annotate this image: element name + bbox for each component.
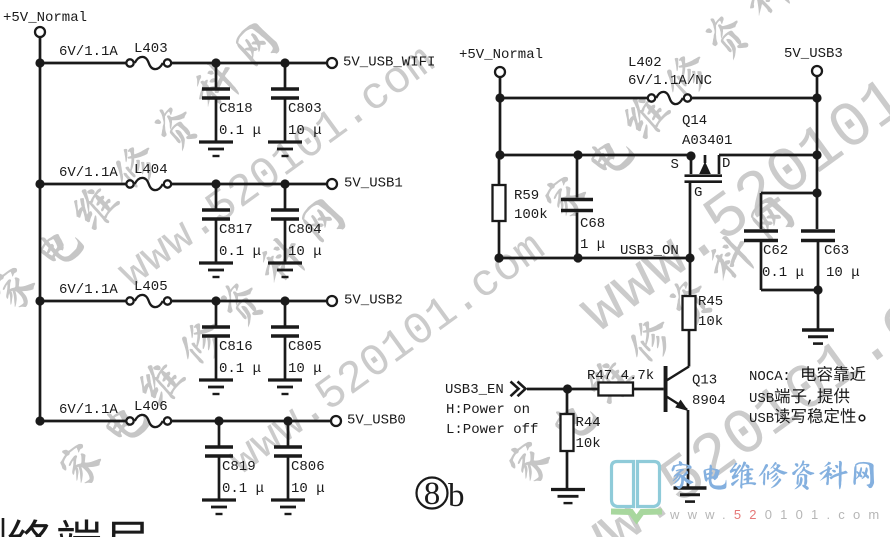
capacitor C63 10u <box>801 231 860 290</box>
resistor R45 10k <box>683 258 724 367</box>
svg-text:5V_USB0: 5V_USB0 <box>347 413 406 429</box>
wire source rail row <box>495 150 691 159</box>
svg-text:6V/1.1A: 6V/1.1A <box>59 44 118 60</box>
svg-text:100k: 100k <box>514 207 548 223</box>
input chevron USB3_EN <box>511 382 526 397</box>
svg-text:6V/1.1A: 6V/1.1A <box>59 282 118 298</box>
transistor Q13 8904 NPN <box>664 366 726 412</box>
svg-text:L:Power off: L:Power off <box>446 422 538 438</box>
wire gate of Q14 down <box>689 183 692 258</box>
wire top rail to L402 <box>495 93 649 102</box>
junction rail row 403 <box>35 58 44 67</box>
wire USB3_EN to R47 <box>527 384 598 393</box>
inductor L405 <box>126 279 171 307</box>
svg-text:C818: C818 <box>219 101 253 117</box>
svg-text:C62: C62 <box>763 243 788 259</box>
svg-text:10 μ: 10 μ <box>288 123 322 139</box>
svg-text:D: D <box>722 156 730 172</box>
svg-text:5V_USB2: 5V_USB2 <box>344 293 403 309</box>
node 5V_USB1 terminal <box>327 179 337 189</box>
svg-text:,: , <box>806 390 815 407</box>
svg-text:C68: C68 <box>580 216 605 232</box>
net 5V_USB_WIFI label <box>343 55 435 71</box>
resistor R47 4.7k <box>587 368 654 396</box>
svg-text:H:Power on: H:Power on <box>446 402 530 418</box>
note H:Power on <box>446 402 530 418</box>
node 5V_USB0 terminal <box>331 416 341 426</box>
junction rail row 405 <box>35 296 44 305</box>
svg-text:5V_USB3: 5V_USB3 <box>784 46 843 62</box>
node 5V_USB3 terminal <box>812 66 822 98</box>
wire fuse to output 5V_USB0 <box>172 420 331 423</box>
svg-text:10 μ: 10 μ <box>291 481 325 497</box>
net +5V_Normal label right <box>459 47 543 63</box>
svg-text:USB: USB <box>749 411 774 427</box>
ground C806 <box>271 500 305 514</box>
resistor R44 10k <box>561 389 601 489</box>
ground Q13 emitter <box>674 488 707 502</box>
svg-text:L406: L406 <box>134 399 168 415</box>
svg-text:10k: 10k <box>698 314 723 330</box>
capacitor C806 10u <box>274 421 325 500</box>
figure label 8b <box>417 476 465 514</box>
note NOCA <box>749 366 865 427</box>
svg-text:6V/1.1A: 6V/1.1A <box>59 402 118 418</box>
capacitor C817 0.1u <box>202 184 261 263</box>
svg-text:L402: L402 <box>628 55 662 71</box>
svg-text:L403: L403 <box>134 41 168 57</box>
wire USB3_ON node row <box>494 253 694 262</box>
caption bottom left <box>3 518 147 537</box>
svg-text:6V/1.1A/NC: 6V/1.1A/NC <box>628 73 712 89</box>
fuse value 6V/1.1A for L403 <box>59 44 118 60</box>
svg-text:A03401: A03401 <box>682 133 732 149</box>
inductor L406 <box>126 399 171 427</box>
capacitor C68 1u <box>561 155 605 258</box>
node junction C816 <box>211 296 220 305</box>
ground C816 <box>199 380 233 394</box>
wire rail to fuse L406 <box>40 420 127 423</box>
svg-text:www.520101.com: www.520101.com <box>669 507 887 522</box>
capacitor C805 10u <box>271 301 322 380</box>
capacitor C816 0.1u <box>202 301 261 380</box>
svg-text:C804: C804 <box>288 222 322 238</box>
node junction C806 <box>283 416 292 425</box>
wire +5V_Normal rail <box>39 38 42 422</box>
net USB3_EN label <box>445 382 504 398</box>
svg-text:G: G <box>694 185 702 201</box>
wire R47 to base <box>633 388 664 391</box>
capacitor C819 0.1u <box>205 421 264 500</box>
svg-text:L405: L405 <box>134 279 168 295</box>
svg-text:10k: 10k <box>576 436 601 452</box>
svg-text:5V_USB1: 5V_USB1 <box>344 176 403 192</box>
capacitor C818 0.1u <box>202 63 261 142</box>
svg-text:S: S <box>671 157 679 173</box>
node junction C819 <box>214 416 223 425</box>
svg-text:b: b <box>448 478 465 514</box>
wire +5V_Normal down <box>499 78 502 156</box>
net 5V_USB2 label <box>344 293 403 309</box>
svg-text:C816: C816 <box>219 339 253 355</box>
wire fuse to output 5V_USB2 <box>172 300 327 303</box>
node 5V_USB_WIFI terminal <box>327 58 337 68</box>
svg-text:10 μ: 10 μ <box>288 244 322 260</box>
net USB3_ON label <box>620 243 679 259</box>
svg-text:0.1 μ: 0.1 μ <box>219 123 261 139</box>
inductor L403 <box>126 41 171 69</box>
wire rail to fuse L405 <box>40 300 127 303</box>
inductor L404 <box>126 162 171 190</box>
wire C62 C63 common <box>761 285 823 329</box>
capacitor C804 10u <box>271 184 322 263</box>
node +5V_Normal terminal <box>35 27 45 37</box>
svg-text:0.1 μ: 0.1 μ <box>762 265 804 281</box>
net 5V_USB1 label <box>344 176 403 192</box>
svg-text:1 μ: 1 μ <box>580 237 605 253</box>
ground R44 <box>551 490 585 504</box>
svg-text:NOCA: NOCA <box>749 369 783 385</box>
node +5V_Normal terminal right <box>495 67 505 77</box>
ground C803 <box>268 142 302 156</box>
svg-text:0.1 μ: 0.1 μ <box>219 244 261 260</box>
svg-text:C819: C819 <box>222 459 256 475</box>
svg-text:+5V_Normal: +5V_Normal <box>459 47 543 63</box>
svg-text:5V_USB_WIFI: 5V_USB_WIFI <box>343 55 435 71</box>
svg-text:8: 8 <box>424 476 441 512</box>
logo site <box>611 460 887 522</box>
wire fuse to output 5V_USB1 <box>172 183 327 186</box>
ground C63 <box>802 330 834 344</box>
ground C805 <box>268 380 302 394</box>
wire to C62 C63 <box>761 188 822 229</box>
svg-text:R44: R44 <box>576 415 601 431</box>
net 5V_USB3 label <box>784 46 843 62</box>
net +5V_Normal label <box>3 10 87 26</box>
wire rail to fuse L403 <box>40 62 127 65</box>
svg-text:C817: C817 <box>219 222 253 238</box>
resistor R59 100k <box>493 155 548 258</box>
wire 5V_USB3 rail down <box>816 98 819 229</box>
ground C817 <box>199 263 233 277</box>
fuse value 6V/1.1A for L404 <box>59 165 118 181</box>
node 5V_USB2 terminal <box>327 296 337 306</box>
svg-text:8904: 8904 <box>692 393 726 409</box>
ground C804 <box>268 263 302 277</box>
note L:Power off <box>446 422 538 438</box>
svg-text:USB: USB <box>749 391 774 407</box>
svg-text:USB3_ON: USB3_ON <box>620 243 679 259</box>
wire drain to 5V_USB3 rail <box>719 150 822 159</box>
fuse value 6V/1.1A for L405 <box>59 282 118 298</box>
node junction C817 <box>211 179 220 188</box>
transistor Q14 A03401 PMOS <box>671 113 733 201</box>
ground C818 <box>199 142 233 156</box>
svg-text:0.1 μ: 0.1 μ <box>219 361 261 377</box>
wire rail to fuse L404 <box>40 183 127 186</box>
svg-text:L404: L404 <box>134 162 168 178</box>
junction rail row 404 <box>35 179 44 188</box>
svg-text:+5V_Normal: +5V_Normal <box>3 10 87 26</box>
wire emitter down <box>687 410 690 488</box>
capacitor C62 0.1u <box>744 231 804 290</box>
node junction C805 <box>280 296 289 305</box>
wire fuse to output 5V_USB_WIFI <box>172 62 327 65</box>
svg-text:C805: C805 <box>288 339 322 355</box>
svg-text:USB3_EN: USB3_EN <box>445 382 504 398</box>
net 5V_USB0 label <box>347 413 406 429</box>
svg-text:C63: C63 <box>824 243 849 259</box>
wire L402 to 5V_USB3 <box>690 93 822 102</box>
capacitor C803 10u <box>271 63 322 142</box>
svg-text::: : <box>782 368 791 385</box>
svg-text:Q14: Q14 <box>682 113 707 129</box>
node junction C804 <box>280 179 289 188</box>
svg-text:C806: C806 <box>291 459 325 475</box>
node junction C803 <box>280 58 289 67</box>
inductor L402 6V/1.1A/NC <box>628 55 712 104</box>
ground C819 <box>202 500 236 514</box>
svg-text:0.1 μ: 0.1 μ <box>222 481 264 497</box>
fuse value 6V/1.1A for L406 <box>59 402 118 418</box>
node junction C818 <box>211 58 220 67</box>
junction rail row 406 <box>35 416 44 425</box>
svg-text:Q13: Q13 <box>692 373 717 389</box>
svg-text:10 μ: 10 μ <box>826 265 860 281</box>
svg-text:10 μ: 10 μ <box>288 361 322 377</box>
svg-text:C803: C803 <box>288 101 322 117</box>
svg-text:6V/1.1A: 6V/1.1A <box>59 165 118 181</box>
svg-text:R59: R59 <box>514 188 539 204</box>
svg-text:R45: R45 <box>698 294 723 310</box>
